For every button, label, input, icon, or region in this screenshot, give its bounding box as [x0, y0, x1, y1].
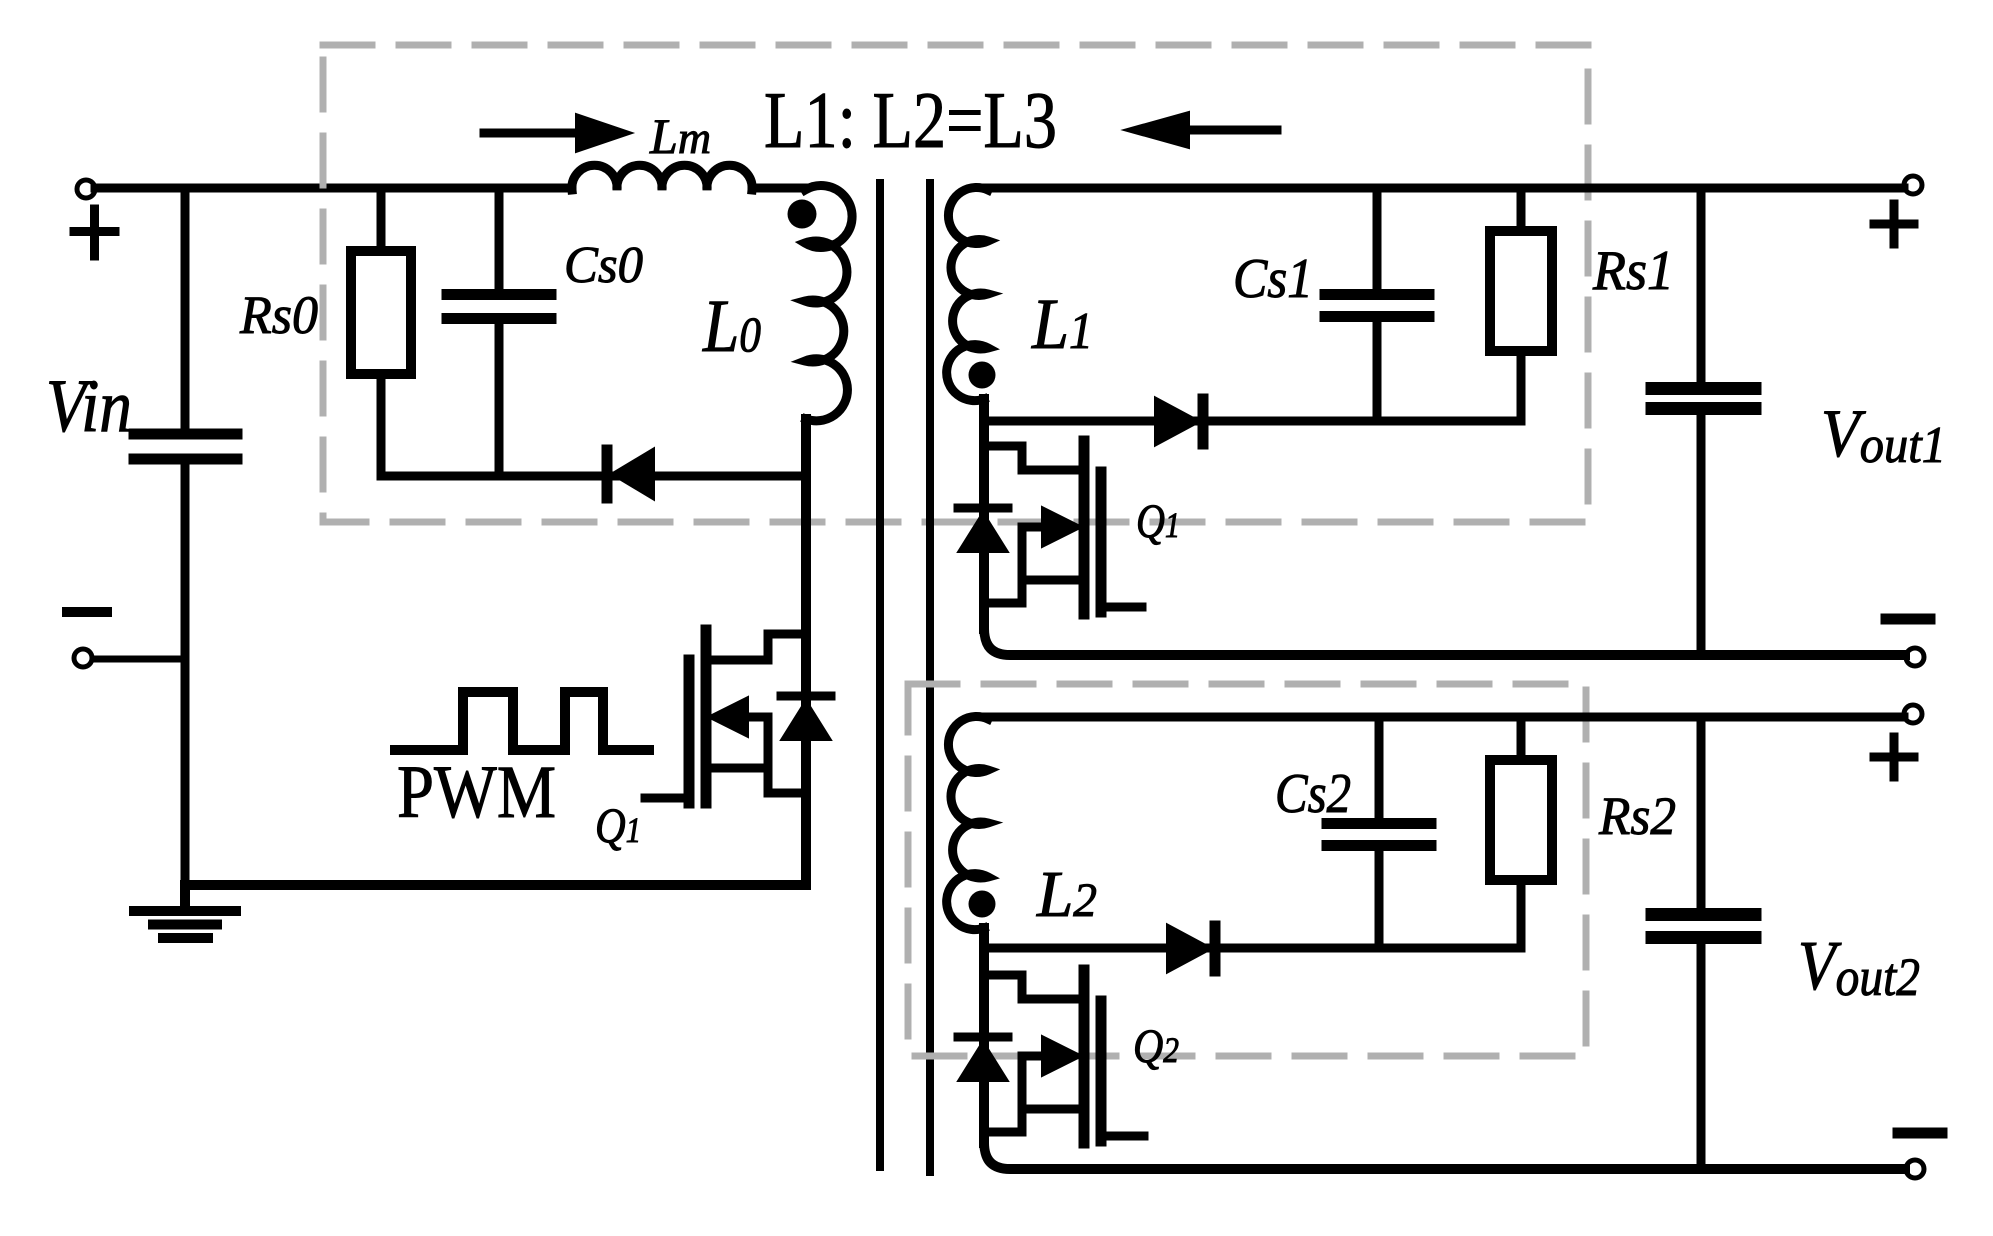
resistor Rs0: [377, 188, 386, 251]
transformer secondary winding L1: [947, 188, 988, 401]
svg-text:Cs0: Cs0: [564, 237, 643, 294]
capacitor Vin plate top: [134, 429, 237, 440]
wire secondary2 top: [986, 713, 1904, 722]
wire L2 rail: [979, 928, 989, 1143]
wire top input: [95, 184, 572, 193]
terminal Vin+: [77, 180, 95, 198]
diode D1: [1156, 399, 1198, 444]
svg-text:Rs0: Rs0: [239, 285, 318, 345]
capacitor Cs0: [495, 188, 504, 289]
dot L0: [788, 200, 817, 229]
wire L1 rail: [979, 399, 989, 629]
minus sign Vout2: [1898, 1128, 1942, 1139]
dot L1: [969, 362, 996, 389]
capacitor Cs1: [1373, 188, 1382, 289]
transformer core left: [876, 183, 884, 1167]
terminal Vout1-: [1906, 648, 1924, 666]
wire Vin- lead: [93, 656, 185, 663]
wire primary bottom: [185, 880, 806, 890]
dashed box snubber2: [908, 684, 1586, 1056]
PWM waveform: [395, 692, 649, 750]
wire Lm to L0: [752, 184, 806, 193]
output capacitor C2: [1697, 717, 1706, 908]
svg-text:Cs1: Cs1: [1233, 248, 1313, 310]
transformer secondary winding L2: [947, 717, 988, 930]
ground: [134, 885, 236, 938]
plus sign Vin: [74, 209, 115, 256]
svg-text:L1: L2=L3: L1: L2=L3: [764, 77, 1057, 165]
transformer core right: [926, 183, 934, 1172]
wire snubber bottom: [381, 472, 806, 481]
wire secondary2 bottom: [984, 1143, 1905, 1169]
resistor Rs2: [1517, 717, 1526, 760]
wire Vin-cap lower: [181, 463, 190, 885]
transformer primary winding L0: [805, 185, 852, 420]
capacitor Vin plate bottom: [134, 454, 237, 465]
arrow current in: [484, 129, 580, 138]
minus sign Vin: [67, 607, 107, 617]
diode D2: [1168, 926, 1210, 971]
wire to rectifier D1: [984, 417, 1521, 426]
terminal Vout1+: [1904, 176, 1922, 194]
terminal Vout2-: [1906, 1160, 1924, 1178]
output capacitor C1: [1697, 188, 1706, 382]
diode D0: [613, 450, 653, 498]
terminal Vin-: [74, 649, 92, 667]
svg-text:Rs2: Rs2: [1598, 786, 1676, 846]
MOSFET Q2: [958, 970, 1144, 1143]
wire L0 to drain rail: [801, 419, 811, 885]
wire secondary1 top: [986, 184, 1904, 193]
plus sign Vout2: [1874, 737, 1914, 777]
wire secondary1 bottom: [984, 629, 1905, 655]
svg-text:Vin: Vin: [46, 365, 132, 448]
dot L2: [969, 891, 996, 918]
wire to rectifier D2: [984, 944, 1521, 953]
svg-text:Lm: Lm: [649, 108, 711, 164]
terminal Vout2+: [1904, 705, 1922, 723]
arrow current out: [1186, 126, 1277, 135]
plus sign Vout1: [1874, 204, 1914, 244]
capacitor Cs2: [1375, 717, 1384, 818]
resistor Rs1: [1517, 188, 1526, 231]
svg-text:Cs2: Cs2: [1275, 763, 1351, 825]
minus sign Vout1: [1886, 614, 1930, 625]
inductor Lm: [572, 165, 752, 190]
dashed box snubbers top: [323, 45, 1588, 522]
MOSFET Q1 primary: [645, 630, 831, 803]
svg-text:Rs1: Rs1: [1592, 240, 1674, 302]
MOSFET Q1 secondary: [958, 441, 1142, 614]
wire Vin-cap upper: [181, 188, 190, 430]
svg-text:PWM: PWM: [397, 751, 556, 834]
